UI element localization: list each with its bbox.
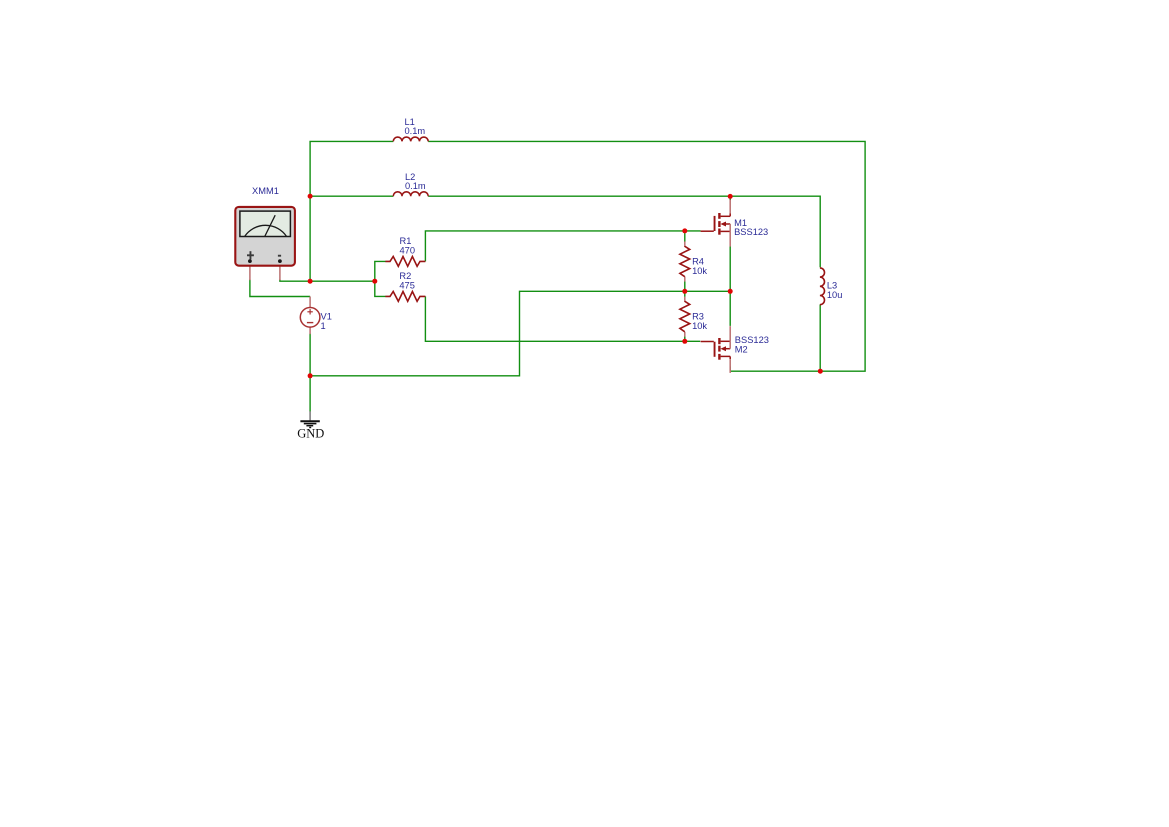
svg-text:10k: 10k bbox=[692, 266, 707, 276]
svg-text:0.1m: 0.1m bbox=[405, 126, 426, 136]
svg-text:1: 1 bbox=[321, 321, 326, 331]
svg-text:10u: 10u bbox=[827, 290, 843, 300]
svg-text:XMM1: XMM1 bbox=[252, 186, 279, 196]
svg-text:10k: 10k bbox=[692, 321, 707, 331]
svg-text:R4: R4 bbox=[692, 257, 704, 267]
svg-text:475: 475 bbox=[399, 281, 415, 291]
svg-text:BSS123: BSS123 bbox=[734, 227, 768, 237]
svg-text:V1: V1 bbox=[321, 311, 332, 321]
svg-text:M2: M2 bbox=[735, 345, 748, 355]
svg-text:470: 470 bbox=[400, 246, 416, 256]
svg-text:GND: GND bbox=[297, 427, 324, 441]
svg-text:0.1m: 0.1m bbox=[405, 181, 426, 191]
